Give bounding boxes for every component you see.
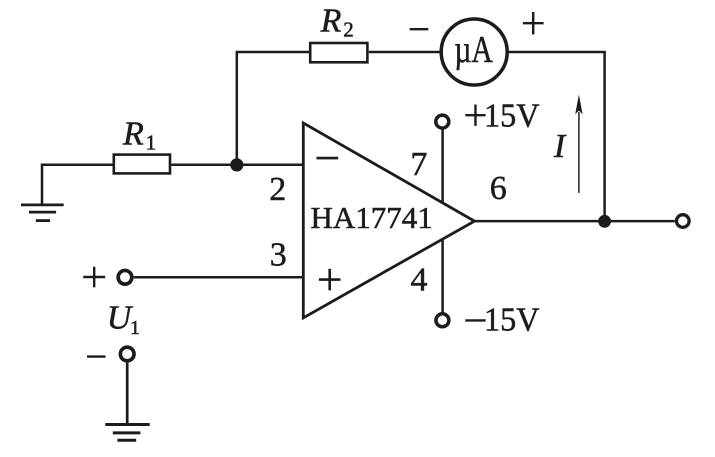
ground (left input reference)	[21, 205, 64, 221]
svg-text:2: 2	[343, 18, 354, 42]
terminal -15V	[436, 314, 449, 327]
ground (source reference)	[105, 425, 149, 441]
svg-text:7: 7	[410, 146, 427, 183]
svg-text:15V: 15V	[484, 98, 540, 135]
label R1	[122, 116, 156, 155]
svg-text:2: 2	[269, 171, 286, 208]
svg-text:R: R	[122, 116, 144, 153]
wire feedback: junction up and over to R2	[237, 52, 310, 165]
label minus (meter polarity)	[410, 28, 429, 30]
wire source plus to pin 3	[134, 276, 304, 279]
label R2	[320, 3, 354, 42]
terminal source minus	[120, 347, 134, 361]
wire R2 to meter	[369, 51, 441, 54]
wire meter to right corner down to output node	[508, 52, 605, 221]
svg-text:15V: 15V	[484, 302, 540, 339]
label plus (meter polarity)	[523, 12, 544, 34]
wire R1 to op-amp inverting input (pin 2)	[171, 163, 303, 166]
terminal output	[677, 215, 690, 228]
label -15V	[465, 302, 540, 339]
resistor R2	[310, 43, 367, 62]
label plus (non-inverting input)	[319, 269, 341, 291]
svg-text:6: 6	[490, 170, 507, 207]
wire pin 7 to +15V terminal	[441, 130, 444, 204]
svg-text:I: I	[553, 128, 567, 165]
current arrow I	[575, 95, 582, 193]
svg-text:R: R	[320, 3, 342, 40]
svg-text:µA: µA	[454, 29, 493, 71]
label U1 (source)	[107, 299, 140, 339]
resistor R1	[114, 155, 170, 174]
terminal +15V	[436, 115, 449, 128]
op-amp HA17741	[303, 123, 474, 318]
meter M1 microammeter	[441, 19, 507, 85]
label +15V	[465, 98, 540, 135]
svg-text:4: 4	[411, 262, 428, 299]
svg-text:1: 1	[130, 317, 140, 339]
node junction at inverting input	[230, 158, 243, 171]
label plus (source polarity)	[83, 267, 105, 288]
svg-text:HA17741: HA17741	[311, 200, 433, 235]
wire op-amp output (pin 6) to output terminal	[475, 220, 675, 223]
terminal source plus	[118, 270, 132, 284]
node output junction	[598, 215, 611, 228]
svg-text:1: 1	[146, 131, 157, 155]
wire ground to R1	[42, 165, 113, 205]
label minus (inverting input)	[317, 157, 339, 160]
wire pin 4 to -15V terminal	[441, 239, 444, 313]
wire source minus to ground	[126, 363, 129, 425]
label minus (source polarity)	[87, 355, 106, 357]
svg-text:3: 3	[270, 236, 287, 273]
